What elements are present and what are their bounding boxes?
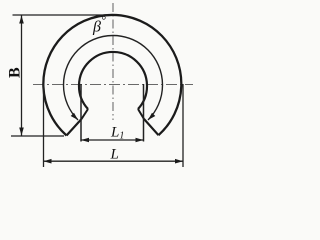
left chamfer edge — [67, 119, 82, 136]
B top arrowhead — [19, 16, 24, 24]
outer arc of horseshoe — [43, 15, 181, 136]
inner hole arc — [79, 52, 147, 109]
svg-text:L1: L1 — [110, 125, 124, 142]
L right arrowhead — [175, 159, 183, 164]
right chamfer edge — [144, 119, 159, 135]
beta arc left arrowhead — [71, 113, 78, 120]
right slot edge / L1 extension line — [143, 84, 145, 142]
dimension line L1 — [81, 139, 144, 141]
left slot edge / L1 extension line — [80, 84, 82, 142]
svg-text:L: L — [110, 147, 119, 163]
B top extension line — [13, 14, 109, 16]
B bottom arrowhead — [19, 128, 24, 136]
L1 left arrowhead — [81, 138, 89, 143]
horizontal centerline — [33, 84, 193, 86]
L left extension line — [43, 84, 45, 167]
right inner cut line — [138, 109, 144, 119]
vertical centerline — [112, 3, 114, 120]
B bottom extension line — [11, 135, 64, 137]
svg-text:B: B — [7, 67, 24, 78]
L1 right arrowhead — [136, 138, 144, 143]
L right extension line — [182, 84, 184, 167]
left inner cut line — [82, 109, 89, 119]
dimension line L — [44, 160, 184, 162]
dimension line B — [21, 16, 23, 136]
L left arrowhead — [44, 159, 52, 164]
beta arc right arrowhead — [148, 113, 155, 120]
angle beta dimension arc — [64, 35, 163, 120]
